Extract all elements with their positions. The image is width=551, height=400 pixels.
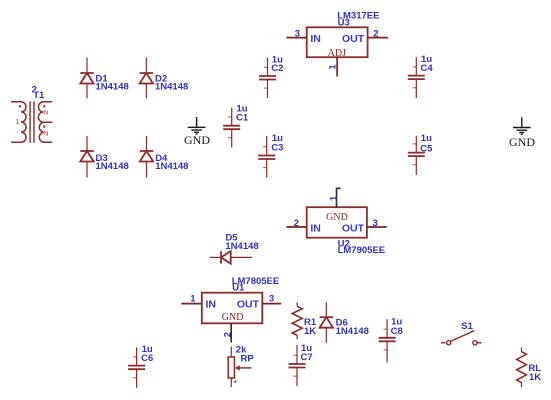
svg-text:GND: GND [509, 135, 535, 149]
capacitor C7 [289, 345, 306, 386]
svg-text:1: 1 [328, 195, 339, 201]
svg-text:U3: U3 [338, 18, 350, 29]
svg-text:1N4148: 1N4148 [96, 82, 129, 93]
svg-text:GND: GND [184, 133, 210, 147]
svg-text:ADJ: ADJ [328, 48, 346, 59]
diode D5 [210, 251, 253, 263]
op-amp U1 (regulator LM7805EE) [202, 293, 262, 324]
diode D2 [140, 58, 153, 99]
svg-text:OUT: OUT [342, 223, 365, 235]
svg-text:C6: C6 [141, 353, 153, 364]
transformer T1 [11, 101, 52, 143]
svg-text:2: 2 [294, 218, 299, 229]
svg-text:3: 3 [295, 28, 300, 39]
svg-text:1: 1 [16, 119, 20, 126]
resistor R1 [292, 302, 302, 339]
svg-text:GND: GND [326, 212, 348, 223]
svg-text:RP: RP [241, 354, 255, 365]
wire U3 pin 1 (bottom, ADJ) [336, 57, 338, 76]
ground GND (right) [513, 117, 531, 134]
svg-text:C5: C5 [420, 144, 433, 155]
svg-text:1: 1 [190, 294, 196, 305]
capacitor C6 [128, 347, 145, 388]
svg-text:U1: U1 [232, 283, 245, 294]
svg-text:1K: 1K [304, 326, 316, 337]
svg-text:2: 2 [373, 28, 378, 39]
capacitor C5 [408, 136, 425, 175]
switch S1 [441, 331, 482, 345]
svg-text:IN: IN [206, 298, 217, 310]
capacitor C8 [379, 319, 396, 362]
diode D6 [320, 302, 333, 342]
svg-text:IN: IN [310, 223, 321, 235]
op-amp U2 (regulator LM7905EE) [307, 207, 367, 238]
svg-text:IN: IN [310, 33, 321, 45]
svg-text:1N4148: 1N4148 [155, 82, 188, 93]
svg-text:C2: C2 [271, 63, 283, 74]
svg-text:N: N [44, 109, 49, 116]
svg-text:1N4148: 1N4148 [336, 326, 369, 337]
svg-text:3: 3 [373, 218, 378, 229]
wire U2 pin 3 (right) [367, 226, 387, 228]
wire U1 pin 2 (bottom, black) [230, 323, 232, 342]
svg-text:GND: GND [222, 312, 244, 323]
svg-text:OUT: OUT [237, 298, 260, 310]
wire U2 pin 2 (left) [286, 226, 306, 228]
svg-text:1u: 1u [421, 133, 432, 144]
svg-text:S1: S1 [461, 321, 473, 332]
svg-text:T1: T1 [33, 90, 45, 101]
op-amp U3 (regulator LM317EE) [307, 27, 368, 57]
svg-text:C4: C4 [421, 63, 434, 74]
svg-text:C3: C3 [271, 143, 283, 154]
capacitor C3 [258, 136, 275, 178]
svg-text:C1: C1 [236, 113, 249, 124]
diode D4 [140, 136, 153, 178]
wire U1 pin 3 (right) [262, 303, 281, 305]
wire U3 pin 2 (right) [368, 37, 388, 39]
svg-text:1N4148: 1N4148 [96, 161, 129, 172]
resistor RL [517, 348, 527, 388]
svg-text:2: 2 [222, 332, 233, 337]
svg-text:C8: C8 [391, 326, 403, 337]
ground GND (middle) [188, 117, 206, 134]
diode D3 [80, 136, 93, 178]
wire U1 pin 1 (left) [181, 303, 202, 305]
svg-text:N: N [44, 130, 49, 137]
svg-text:1N4148: 1N4148 [225, 241, 258, 252]
svg-text:LM7905EE: LM7905EE [338, 245, 386, 256]
svg-text:1: 1 [327, 64, 338, 70]
potentiometer RP [228, 347, 251, 388]
svg-text:1N4148: 1N4148 [155, 161, 188, 172]
svg-text:3: 3 [269, 294, 274, 305]
diode D1 [80, 58, 93, 99]
capacitor C2 [259, 58, 276, 99]
wire U3 pin 3 (left) [286, 37, 306, 39]
svg-text:C7: C7 [301, 352, 313, 363]
capacitor C4 [408, 57, 425, 98]
svg-text:1K: 1K [529, 372, 541, 383]
svg-text:OUT: OUT [342, 33, 365, 45]
wire U2 pin 1 (top, black) [337, 188, 341, 207]
capacitor C1 [223, 108, 240, 148]
